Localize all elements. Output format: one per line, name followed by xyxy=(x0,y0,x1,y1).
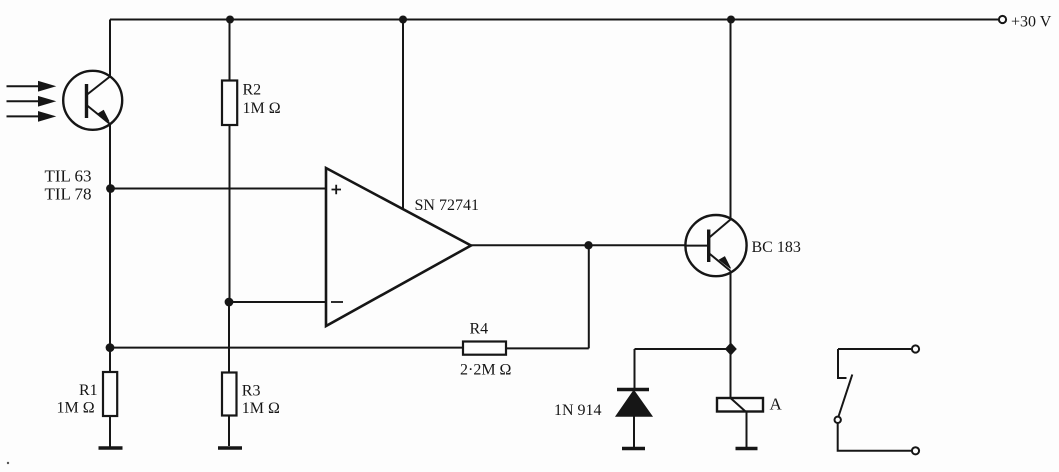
resistor R1 xyxy=(103,372,117,416)
switch S1 xyxy=(835,345,920,454)
wire emitter junction to diode corner xyxy=(635,348,731,350)
svg-text:SN 72741: SN 72741 xyxy=(415,197,479,214)
wire output junction down xyxy=(588,245,590,348)
wire BC183 emitter down xyxy=(730,271,732,349)
wire junction to R1 xyxy=(109,348,111,372)
op-amp U1 SN72741 xyxy=(326,168,471,326)
light arrow 2 xyxy=(7,97,55,106)
node rail junction op-amp V+ xyxy=(399,16,407,24)
light arrow 3 xyxy=(7,112,55,121)
svg-text:R4: R4 xyxy=(470,320,489,337)
wire down-corner to R4 xyxy=(506,347,589,349)
node emitter junction xyxy=(725,343,737,356)
svg-text:1M Ω: 1M Ω xyxy=(242,400,280,417)
svg-text:TIL 78: TIL 78 xyxy=(45,185,92,204)
svg-text:R3: R3 xyxy=(242,383,261,400)
svg-text:2·2M Ω: 2·2M Ω xyxy=(460,362,512,379)
diode D1 1N914 xyxy=(617,390,652,449)
ground R3 xyxy=(218,446,242,449)
node rail junction BC183 collector xyxy=(727,16,735,24)
op-amp plus sign xyxy=(332,185,342,194)
wire op-amp V+ from rail xyxy=(402,20,404,209)
relay coil A xyxy=(717,398,763,449)
wire R4 to R1 junction xyxy=(110,347,463,349)
wire R3 to ground xyxy=(228,416,230,447)
node rail junction R2 xyxy=(226,16,234,24)
svg-text:TIL 63: TIL 63 xyxy=(45,167,92,186)
wire emitter junction down to relay xyxy=(730,349,732,398)
resistor R2 xyxy=(222,81,237,126)
svg-text:1M Ω: 1M Ω xyxy=(57,400,95,417)
wire R2 to minus junction xyxy=(229,125,231,302)
resistor R4 xyxy=(463,342,506,355)
wire op-amp output to BC183 base xyxy=(471,244,686,246)
wire rail junction to R2 xyxy=(229,20,231,81)
wire rail to BC183 collector xyxy=(730,20,732,220)
light arrow 1 xyxy=(7,82,55,91)
wire down to feedback junction xyxy=(109,189,111,348)
svg-text:1N 914: 1N 914 xyxy=(554,402,602,419)
svg-text:R1: R1 xyxy=(79,382,98,399)
+30V terminal xyxy=(999,16,1006,23)
svg-text:BC 183: BC 183 xyxy=(752,239,801,256)
node plus-input junction xyxy=(106,184,115,193)
wire op-amp minus input xyxy=(229,301,326,303)
node R1 feedback junction xyxy=(106,343,115,352)
transistor Q2 BC183 xyxy=(685,215,746,276)
svg-text:A: A xyxy=(770,394,783,413)
wire rail down to phototransistor collector xyxy=(109,20,111,78)
svg-text:+30 V: +30 V xyxy=(1011,14,1052,31)
op-amp minus sign xyxy=(331,301,343,303)
wire emitter down to plus-input junction xyxy=(109,124,111,189)
wire R1 to ground xyxy=(109,416,111,447)
svg-text:R2: R2 xyxy=(243,82,262,99)
speck xyxy=(7,462,9,464)
resistor R3 xyxy=(222,373,237,416)
node minus-input junction xyxy=(225,298,234,307)
node output junction xyxy=(584,241,592,249)
wire op-amp plus input xyxy=(111,188,327,190)
wire junction to R3 xyxy=(228,302,230,373)
phototransistor Q1 TIL63 xyxy=(63,71,122,130)
ground R1 xyxy=(99,446,123,449)
wire corner down to diode xyxy=(634,349,636,388)
svg-text:1M Ω: 1M Ω xyxy=(243,100,281,117)
wire +30V supply rail xyxy=(110,19,999,21)
